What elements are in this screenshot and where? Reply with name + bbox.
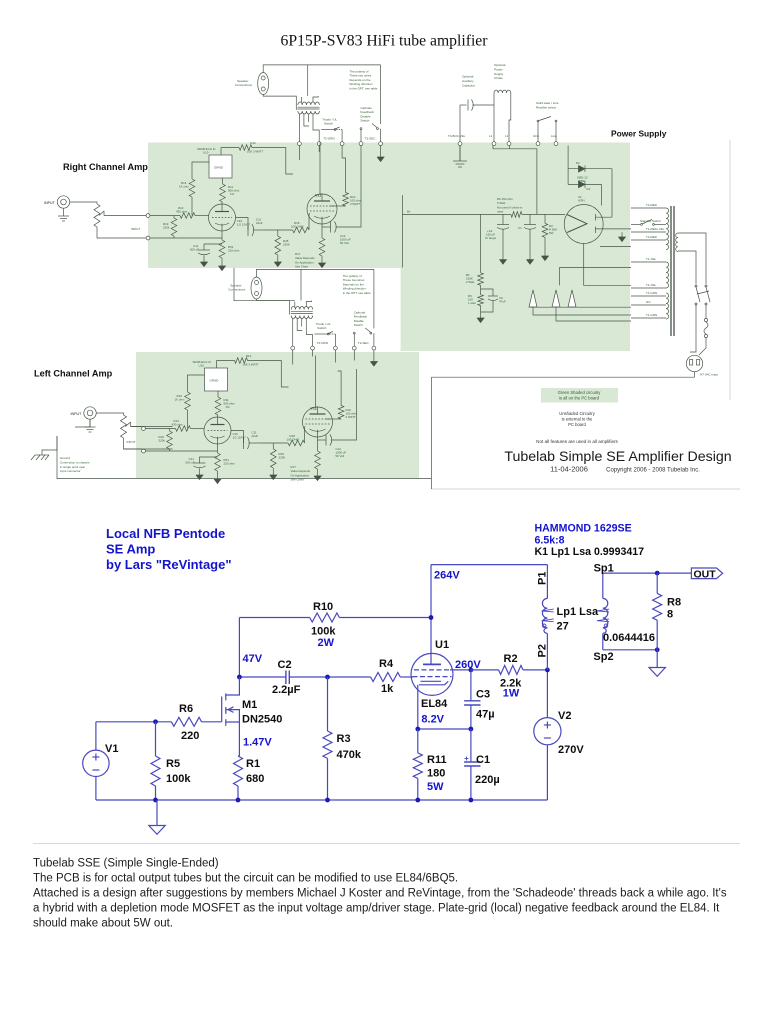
- MOSFET bottom lead: [584, 244, 631, 286]
- wire jack to pot: [70, 202, 97, 204]
- wire cathode node: [418, 728, 471, 730]
- power switch (DPST): [695, 285, 697, 287]
- svg-text:Connections: Connections: [235, 83, 252, 87]
- resistor R10: [310, 613, 340, 622]
- svg-text:2 WATT: 2 WATT: [350, 202, 361, 206]
- svg-text:Right Channel Amp: Right Channel Amp: [63, 162, 148, 172]
- plate lead up to R11: [221, 202, 223, 212]
- svg-text:Optional: Optional: [462, 75, 474, 79]
- svg-text:Rectifier select: Rectifier select: [536, 105, 556, 109]
- svg-text:C1: C1: [518, 226, 522, 230]
- left channel OPT + speaker group: [228, 269, 377, 366]
- input pad connectors at green edge: [146, 214, 150, 218]
- node B junction: [325, 675, 330, 680]
- svg-text:M1: M1: [242, 699, 257, 711]
- svg-text:U10: U10: [203, 150, 209, 154]
- green shaded PCB region: right channel + power supply top: [148, 143, 630, 269]
- svg-text:IXFN: IXFN: [578, 198, 585, 202]
- legend green box: [541, 388, 618, 403]
- svg-text:R11: R11: [427, 754, 447, 766]
- svg-text:HT VAC input: HT VAC input: [700, 373, 718, 377]
- svg-text:P2: P2: [537, 644, 549, 657]
- svg-text:by Lars "ReVintage": by Lars "ReVintage": [106, 557, 232, 572]
- bleeder R2ps: [544, 214, 546, 223]
- voltage source V2: [546, 670, 548, 718]
- wire node to R2: [471, 669, 499, 671]
- svg-text:is all on the PC board: is all on the PC board: [559, 396, 600, 401]
- svg-text:220K: 220K: [283, 242, 290, 246]
- svg-text:Sp2: Sp2: [593, 651, 613, 663]
- left channel input front: [71, 407, 173, 449]
- svg-text:47V: 47V: [243, 653, 263, 665]
- svg-text:50 Volt: 50 Volt: [340, 241, 349, 245]
- svg-text:Attached is a design after sug: Attached is a design after suggestions b…: [33, 888, 727, 900]
- wires below pads: [298, 146, 300, 161]
- svg-text:PC board: PC board: [568, 422, 586, 427]
- wire lower input line: [150, 237, 222, 239]
- node gate junction: [153, 719, 158, 724]
- svg-text:Not all features are used in a: Not all features are used in all amplifi…: [536, 439, 618, 444]
- coupling cap C11: [236, 218, 249, 231]
- wire speaker top to OPT top rail: [263, 65, 380, 73]
- svg-text:EL84: EL84: [421, 698, 448, 710]
- voltage source V1: [95, 722, 97, 750]
- svg-text:V1: V1: [105, 743, 118, 755]
- svg-text:5W: 5W: [427, 781, 444, 793]
- wire screen grid to node 260V: [450, 669, 471, 671]
- right channel amp core: [131, 141, 362, 271]
- svg-text:U1: U1: [435, 639, 449, 651]
- svg-text:Auxiliary: Auxiliary: [462, 79, 474, 83]
- svg-text:6P15P-SV83 HiFi tube amplifier: 6P15P-SV83 HiFi tube amplifier: [281, 32, 489, 49]
- svg-text:T1-YEL: T1-YEL: [646, 257, 657, 261]
- vacuum tube U1 EL84: [411, 653, 453, 695]
- svg-text:470k: 470k: [337, 749, 362, 761]
- svg-text:Tubelab Simple SE Amplifier De: Tubelab Simple SE Amplifier Design: [504, 449, 731, 465]
- svg-text:10K 3 WATT: 10K 3 WATT: [247, 150, 263, 154]
- legend box border: [430, 377, 432, 489]
- svg-text:Line: Line: [551, 134, 557, 138]
- svg-text:C2: C2: [278, 659, 292, 671]
- svg-text:270V: 270V: [558, 744, 584, 756]
- svg-text:Supply: Supply: [494, 72, 504, 76]
- PCB connector pads: [298, 142, 302, 146]
- wire C2 to R4: [289, 676, 370, 678]
- svg-text:L1: L1: [489, 134, 493, 138]
- svg-text:R1: R1: [246, 758, 260, 770]
- svg-text:2 Watt: 2 Watt: [466, 280, 474, 284]
- svg-text:100k: 100k: [166, 773, 191, 785]
- svg-text:T1-GRN: T1-GRN: [646, 313, 657, 317]
- svg-text:D2: D2: [576, 161, 580, 165]
- svg-text:47µ: 47µ: [476, 709, 495, 721]
- grid stopper R18: [264, 229, 293, 231]
- output transformer OPT windings: [298, 102, 320, 105]
- AC plug: [686, 355, 702, 371]
- ground symbol below rail: [156, 800, 158, 826]
- cap C6: [481, 289, 493, 296]
- jack ground: [63, 208, 65, 216]
- svg-text:8.2V: 8.2V: [421, 714, 444, 726]
- svg-text:T1-RED: T1-RED: [646, 235, 658, 239]
- svg-text:680: 680: [246, 773, 264, 785]
- chassis ground symbol left: [35, 454, 49, 456]
- right channel input front: [44, 196, 146, 238]
- svg-text:180: 180: [427, 768, 445, 780]
- left channel amp core: [127, 354, 358, 484]
- faint page/image borders: [729, 140, 731, 400]
- wire Sp1: [603, 572, 692, 574]
- OPT secondary leads down to PCB connectors: [298, 114, 300, 142]
- svg-text:L1: L1: [505, 134, 509, 138]
- svg-text:P1: P1: [537, 572, 549, 585]
- wire R4 to tube grid: [400, 676, 413, 678]
- bottom ground rail: [96, 799, 548, 801]
- resistor R19: [171, 218, 177, 236]
- node A junction: [429, 615, 434, 620]
- resistor R6: [171, 717, 201, 726]
- resistor R1: [234, 756, 243, 786]
- svg-text:500 uF: 500 uF: [190, 248, 199, 252]
- OPT primary top leads: [301, 97, 303, 102]
- svg-text:100 OHM: 100 OHM: [291, 224, 304, 228]
- svg-text:NO: NO: [646, 300, 651, 304]
- svg-text:R5: R5: [166, 758, 180, 770]
- wire 264V rail: [431, 564, 547, 566]
- left channel ground wire down to bottom rail: [75, 419, 90, 427]
- svg-text:T1-YEL: T1-YEL: [646, 283, 657, 287]
- filter cap C1ps: [529, 214, 531, 224]
- resistor R5: [155, 722, 157, 756]
- bypass cap C42: [204, 244, 222, 250]
- ground below cathode feedback lead: [377, 157, 384, 162]
- svg-text:5W: 5W: [549, 231, 554, 235]
- resistor R5ps: [480, 285, 482, 294]
- svg-text:430 ohm: 430 ohm: [176, 209, 188, 213]
- volume pot: [94, 204, 100, 227]
- T1 primary winding: [676, 233, 678, 251]
- svg-text:220 ohm: 220 ohm: [228, 248, 240, 252]
- heater winding connections: [529, 290, 537, 307]
- left channel extra wire to pads: [131, 426, 142, 428]
- svg-text:260V: 260V: [455, 659, 481, 671]
- faint schematic bottom border: [431, 488, 740, 490]
- lower PS wires: [559, 267, 631, 269]
- svg-text:INPUT: INPUT: [131, 227, 140, 231]
- node 47V junction dot: [237, 675, 242, 680]
- T1 secondary windings: [666, 208, 669, 250]
- svg-text:INPUT: INPUT: [44, 201, 56, 205]
- svg-text:input connector: input connector: [60, 469, 81, 473]
- right channel OPT + speaker group: [235, 65, 384, 162]
- OUT port tag: [691, 568, 722, 579]
- svg-text:Standby Switch: Standby Switch: [640, 219, 661, 223]
- svg-text:Lp1 Lsa: Lp1 Lsa: [557, 606, 599, 618]
- plate lead of V11 going up: [320, 143, 322, 202]
- svg-text:Power: Power: [494, 67, 503, 71]
- wire gate feed: [202, 721, 222, 723]
- pot wiper wire to green edge: [104, 215, 146, 217]
- svg-text:R3: R3: [337, 733, 351, 745]
- cathode resistor R51: [221, 224, 223, 240]
- svg-text:27: 27: [557, 621, 569, 633]
- svg-text:0.0644416: 0.0644416: [603, 632, 655, 644]
- green shaded PCB region: left channel: [136, 352, 419, 478]
- wire M1 source down to R1: [238, 722, 240, 756]
- svg-text:in single point near: in single point near: [60, 465, 85, 469]
- input jack: [57, 196, 69, 208]
- resistor R8: [656, 573, 658, 593]
- svg-text:100k: 100k: [311, 626, 336, 638]
- inductor Lsa secondary: [602, 573, 604, 598]
- svg-text:K1 Lp1 Lsa 0.9993417: K1 Lp1 Lsa 0.9993417: [535, 546, 645, 558]
- resistor R13 grid stopper: [180, 213, 195, 219]
- inductor Lp1 primary: [546, 565, 548, 599]
- svg-text:Unshaded Circuitry: Unshaded Circuitry: [559, 411, 596, 416]
- cathode bypass C12: [322, 226, 331, 228]
- tube V10 triode 1/2 12AT7: [209, 204, 236, 231]
- svg-text:220k: 220k: [163, 225, 170, 229]
- svg-text:B+: B+: [407, 210, 411, 214]
- svg-text:GN1: GN1: [533, 134, 540, 138]
- svg-text:is external to the: is external to the: [562, 417, 593, 422]
- cathode R17: [321, 217, 323, 238]
- PS wires inside green from pads down: [493, 146, 537, 215]
- svg-text:47uF: 47uF: [499, 299, 506, 303]
- svg-text:1W: 1W: [503, 688, 520, 700]
- B+ rail with R12: [221, 147, 239, 149]
- svg-text:1.47V: 1.47V: [243, 737, 272, 749]
- svg-text:Optional: Optional: [494, 63, 506, 67]
- ground below R8: [656, 650, 658, 668]
- wire Sp2: [603, 649, 657, 651]
- svg-text:Switch: Switch: [324, 122, 333, 126]
- svg-text:2.2µF: 2.2µF: [272, 684, 301, 696]
- resistor R2: [499, 665, 523, 674]
- ground for aux cap (in green): [459, 146, 461, 162]
- svg-text:R10: R10: [313, 601, 333, 613]
- svg-text:The PCB is for octal output tu: The PCB is for octal output tubes but th…: [33, 873, 458, 885]
- speaker connections oval: [258, 73, 269, 95]
- svg-text:R4: R4: [379, 658, 394, 670]
- resistor R4: [371, 673, 401, 682]
- svg-text:T1-RED: T1-RED: [646, 203, 658, 207]
- svg-text:Green Shaded circuitry: Green Shaded circuitry: [558, 390, 602, 395]
- svg-text:2W: 2W: [318, 637, 335, 649]
- svg-text:C1: C1: [476, 754, 490, 766]
- svg-text:Left Channel Amp: Left Channel Amp: [34, 369, 113, 379]
- svg-text:HAMMOND 1629SE: HAMMOND 1629SE: [535, 523, 632, 535]
- B+ rail: [401, 195, 403, 268]
- svg-text:DN2540: DN2540: [242, 714, 282, 726]
- svg-text:T2-SEC: T2-SEC: [365, 136, 377, 140]
- svg-text:Power Supply: Power Supply: [611, 129, 667, 139]
- svg-text:Tubelab SSE (Simple Single-End: Tubelab SSE (Simple Single-Ended): [33, 858, 219, 870]
- svg-text:1%: 1%: [230, 192, 235, 196]
- svg-text:OUT: OUT: [694, 569, 717, 581]
- wire grid line: [150, 215, 180, 217]
- green shaded PCB region: power supply lower: [401, 268, 630, 351]
- resistor R11 plate load: [220, 184, 226, 202]
- svg-text:C3: C3: [476, 689, 490, 701]
- svg-text:R6: R6: [179, 703, 193, 715]
- svg-text:1/2 12AT7: 1/2 12AT7: [237, 222, 251, 226]
- svg-text:8: 8: [667, 609, 673, 621]
- svg-text:Ground: Ground: [60, 456, 70, 460]
- svg-text:GRND: GRND: [214, 166, 224, 170]
- capacitor C3: [470, 670, 472, 701]
- svg-text:R2: R2: [504, 653, 518, 665]
- svg-text:Or larger: Or larger: [485, 236, 496, 240]
- svg-text:V2: V2: [558, 710, 571, 722]
- svg-text:in the OPT, see table: in the OPT, see table: [349, 86, 377, 90]
- voltage regulator box GRND: [209, 155, 232, 178]
- screen resistor R10: [330, 205, 346, 207]
- svg-text:Choke: Choke: [494, 76, 503, 80]
- ground at standby: [621, 232, 623, 237]
- capacitor C1: [470, 729, 472, 762]
- MOSFET M1 DN2540: [226, 677, 240, 695]
- svg-text:220µ: 220µ: [475, 774, 500, 786]
- wire speaker bottom lead: [263, 95, 296, 111]
- svg-text:Connection to chassis: Connection to chassis: [60, 460, 90, 464]
- filter cap C2ps: [502, 214, 504, 224]
- svg-text:Local NFB Pentode: Local NFB Pentode: [106, 526, 225, 541]
- wire green A to left OPT primary: [234, 268, 295, 301]
- wire rail to node A: [339, 617, 431, 619]
- bleeder resistor B4: [480, 214, 482, 272]
- svg-text:R12: R12: [250, 141, 256, 145]
- wire V1 to R6: [96, 721, 171, 723]
- svg-text:a hybrid with a depletion mode: a hybrid with a depletion mode MOSFET as…: [33, 903, 720, 915]
- svg-text:1k: 1k: [381, 683, 394, 695]
- svg-text:Sp1: Sp1: [594, 563, 614, 575]
- svg-text:Capacitor: Capacitor: [462, 83, 475, 87]
- svg-text:1K ohm: 1K ohm: [179, 184, 190, 188]
- mains wires to switch and fuse: [678, 233, 706, 284]
- grid leak R45: [275, 236, 281, 255]
- svg-text:264V: 264V: [434, 570, 460, 582]
- power transformer T1 core: [670, 206, 672, 336]
- svg-text:D1: D1: [587, 187, 591, 191]
- wire R10 rail: [239, 617, 309, 619]
- svg-text:R8: R8: [667, 597, 681, 609]
- svg-text:T4-BCK-YEL: T4-BCK-YEL: [448, 134, 466, 138]
- diodes D2 D1: [567, 146, 569, 169]
- svg-text:See Chart: See Chart: [295, 265, 308, 269]
- svg-text:Switch: Switch: [360, 119, 369, 123]
- svg-text:SE Amp: SE Amp: [106, 542, 155, 557]
- pot bottom to lower wire: [97, 227, 146, 238]
- wire plate vertical: [430, 565, 432, 665]
- wire left vertical 47V: [238, 618, 240, 678]
- svg-text:220: 220: [181, 730, 199, 742]
- resistor R3: [327, 677, 329, 731]
- capacitor C2: [285, 671, 287, 685]
- svg-text:T2-ORN: T2-ORN: [323, 136, 334, 140]
- resistor R11: [417, 729, 419, 753]
- svg-text:used: used: [497, 210, 504, 214]
- svg-text:6.5k:8: 6.5k:8: [535, 535, 565, 547]
- svg-text:T1-RED+YEL: T1-RED+YEL: [646, 227, 665, 231]
- fuse: [705, 305, 707, 318]
- output tube V11: [307, 194, 337, 224]
- svg-text:should make about 5W out.: should make about 5W out.: [33, 918, 173, 930]
- svg-text:Solid state / Line: Solid state / Line: [536, 101, 559, 105]
- T1 secondary stub wires + labels: [631, 207, 666, 209]
- svg-text:Copyright 2006 - 2008 Tubelab: Copyright 2006 - 2008 Tubelab Inc.: [606, 468, 700, 474]
- wire gate line with C2: [239, 676, 286, 678]
- svg-text:22uF: 22uF: [256, 221, 263, 225]
- svg-text:11-04-2006: 11-04-2006: [550, 465, 588, 474]
- svg-text:T1-GRN: T1-GRN: [646, 291, 657, 295]
- svg-text:1 watt: 1 watt: [468, 301, 476, 305]
- resistor R16: [192, 162, 209, 179]
